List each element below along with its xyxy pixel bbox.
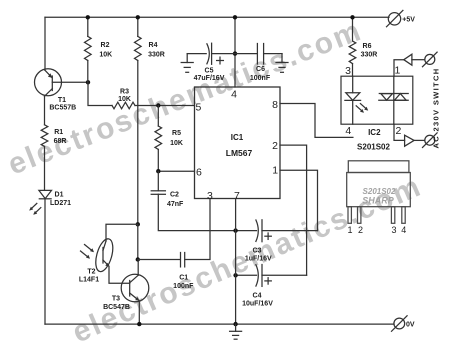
wire C3 row from ground column xyxy=(236,230,257,232)
svg-text:SHARP: SHARP xyxy=(362,196,395,206)
svg-text:5: 5 xyxy=(195,101,201,113)
label R1 68R xyxy=(54,129,67,145)
svg-text:L14F1: L14F1 xyxy=(79,276,99,283)
svg-text:2: 2 xyxy=(358,225,363,235)
wire C4 row from ground column xyxy=(236,274,257,276)
svg-text:3: 3 xyxy=(345,65,351,77)
opto triac inside IC2 xyxy=(379,76,408,124)
wire IC2 pin2 to AC terminal xyxy=(394,124,405,140)
capacitor C6 xyxy=(257,44,263,65)
svg-text:3: 3 xyxy=(207,190,213,202)
node pin6 / C2 top xyxy=(156,169,160,173)
wire R6 to IC2 pin3 xyxy=(352,64,354,77)
node pin4 top rail xyxy=(233,15,237,19)
svg-text:R3: R3 xyxy=(120,89,129,96)
svg-text:T3: T3 xyxy=(112,296,120,303)
transistor T3 xyxy=(121,274,149,302)
svg-text:C1: C1 xyxy=(179,275,188,282)
node T2 collector junction xyxy=(136,222,140,226)
svg-text:R4: R4 xyxy=(149,42,158,49)
wire arrow to bottom AC terminal xyxy=(414,139,425,141)
svg-text:330R: 330R xyxy=(148,51,165,58)
capacitor C5 xyxy=(207,43,224,64)
label R6 330R xyxy=(361,43,378,59)
wire C2 bottom to ground column xyxy=(158,194,235,230)
label C1 100nF xyxy=(173,275,194,290)
wire T1 base to R2 node xyxy=(52,81,88,83)
svg-text:T1: T1 xyxy=(58,97,66,104)
resistor R2 xyxy=(85,36,92,60)
node T3 emitter on rail xyxy=(137,322,141,326)
svg-text:3: 3 xyxy=(391,225,396,235)
svg-text:1: 1 xyxy=(394,65,400,77)
svg-text:100nF: 100nF xyxy=(173,283,194,290)
phototransistor T2 xyxy=(81,237,117,274)
terminal AC top xyxy=(423,52,438,67)
capacitor C1 xyxy=(181,253,185,267)
svg-text:IC1: IC1 xyxy=(231,133,244,142)
svg-text:C4: C4 xyxy=(253,292,262,299)
wire IC1 pin8 output to IC2 pin4 xyxy=(280,104,353,138)
node R4 top xyxy=(136,15,140,19)
svg-text:1: 1 xyxy=(347,225,352,235)
svg-text:S201S02: S201S02 xyxy=(357,143,390,152)
label R5 10K xyxy=(170,130,183,147)
label C2 47nF xyxy=(167,192,184,208)
wire junction to T2 collector xyxy=(106,224,138,241)
wire IC1 pin2 row xyxy=(280,145,307,275)
wire T1 emitter lead from rail xyxy=(44,17,46,70)
SHARP package drawing xyxy=(347,161,411,224)
wire decoupling row left xyxy=(187,53,206,55)
svg-text:C6: C6 xyxy=(256,66,265,73)
svg-text:10K: 10K xyxy=(118,96,131,103)
ground at 0V rail xyxy=(230,324,242,339)
wire T3 emitter to 0V rail xyxy=(138,301,140,324)
resistor R4 xyxy=(135,36,142,60)
label C5 47uF/16V xyxy=(194,67,225,81)
svg-text:10K: 10K xyxy=(99,51,112,58)
svg-text:IC2: IC2 xyxy=(368,128,381,137)
wire R4 top lead xyxy=(137,17,139,36)
svg-text:LD271: LD271 xyxy=(50,200,71,207)
svg-text:4: 4 xyxy=(345,125,351,137)
wire R2 top lead xyxy=(87,17,89,36)
terminal +5V xyxy=(387,10,403,26)
arrow AC out xyxy=(405,135,415,146)
wire IC1 pin4 supply column xyxy=(234,17,236,87)
arrow AC in xyxy=(404,54,412,65)
svg-text:AC 230V SWITCH: AC 230V SWITCH xyxy=(432,68,441,149)
node pin5 / R5 top xyxy=(156,103,160,107)
capacitor C2 xyxy=(151,191,165,195)
svg-text:C3: C3 xyxy=(253,248,262,255)
wire IC1 pin6 row xyxy=(158,170,194,172)
node T1 base / R2 bottom xyxy=(86,80,90,84)
wire D1 cathode down to 0V rail xyxy=(44,199,46,324)
wire arrow to top AC terminal xyxy=(412,59,425,61)
wire T2 emitter to T3 base xyxy=(109,267,130,284)
label C3 1uF/16V xyxy=(245,248,272,263)
svg-text:2: 2 xyxy=(395,125,401,137)
label C4 10uF/16V xyxy=(242,292,273,307)
svg-text:7: 7 xyxy=(234,190,240,202)
svg-text:C5: C5 xyxy=(205,67,214,74)
node C5 C6 junction xyxy=(233,51,237,55)
node R6 top rail xyxy=(350,15,354,19)
svg-text:D1: D1 xyxy=(55,192,64,199)
label T2 L14F1 xyxy=(79,269,99,284)
svg-text:BC557B: BC557B xyxy=(49,104,76,111)
LED D1 xyxy=(29,190,51,214)
ground left of C5 xyxy=(181,54,193,73)
resistor R6 xyxy=(349,41,356,64)
wire R3 to IC1 pin5 xyxy=(135,105,195,107)
ground right of C6 xyxy=(276,54,288,73)
svg-text:R2: R2 xyxy=(101,42,110,49)
wire T3 collector lead xyxy=(137,260,139,276)
resistor R5 xyxy=(155,106,162,172)
node ground column on rail xyxy=(233,322,237,326)
capacitor C3 xyxy=(256,220,271,242)
wire IC2 pin1 to AC terminal xyxy=(394,60,404,76)
svg-text:68R: 68R xyxy=(54,138,67,145)
transistor T1 xyxy=(35,69,62,96)
svg-text:+5V: +5V xyxy=(402,16,415,23)
node C4 ground column xyxy=(233,273,237,277)
IC1 LM567 body xyxy=(195,87,281,199)
node T3 collector / C1 xyxy=(136,257,140,261)
svg-text:1uF/16V: 1uF/16V xyxy=(245,256,272,263)
svg-text:330R: 330R xyxy=(361,52,378,59)
svg-text:1: 1 xyxy=(272,165,278,177)
wire R6 top lead xyxy=(352,17,354,41)
wire C1 to IC1 pin3 xyxy=(185,199,210,260)
label D1 LD271 xyxy=(50,192,71,208)
wire 0V bottom rail xyxy=(45,323,394,325)
svg-text:47nF: 47nF xyxy=(167,201,184,208)
label C6 100nF xyxy=(250,66,271,82)
wire C2 top lead xyxy=(157,171,159,191)
svg-text:100nF: 100nF xyxy=(250,75,271,82)
resistor R3 xyxy=(112,102,135,109)
wire C1 row from T3 collector node xyxy=(138,259,181,261)
wire T1 collector to R1 xyxy=(44,96,46,125)
wire R4 bottom down to T2 collector node xyxy=(137,61,139,225)
svg-text:T2: T2 xyxy=(87,269,95,276)
wire IC1 pin1 row xyxy=(280,170,318,230)
svg-text:R1: R1 xyxy=(54,129,63,136)
opto LED inside IC2 xyxy=(345,76,368,124)
wire IC1 pin7 ground column xyxy=(235,199,237,325)
wire junction down to C1 node xyxy=(137,224,139,259)
wire R1 to D1 xyxy=(44,146,46,190)
wire C6 to right ground xyxy=(264,53,282,55)
label IC2 S201S02 xyxy=(357,128,390,152)
IC2 S201S02 body xyxy=(341,76,413,124)
wire C4 to pin2 column xyxy=(262,274,307,276)
label R2 10K xyxy=(99,42,112,58)
svg-text:4: 4 xyxy=(231,89,237,101)
terminal AC bottom xyxy=(423,133,438,148)
svg-text:S201S02: S201S02 xyxy=(363,187,396,196)
svg-text:2: 2 xyxy=(272,140,278,152)
svg-text:R5: R5 xyxy=(172,130,181,137)
wire +5V top rail xyxy=(45,16,389,18)
capacitor C4 xyxy=(256,265,271,287)
resistor R1 xyxy=(41,125,48,147)
wire R2 bottom to base node xyxy=(87,61,89,83)
label R3 10K xyxy=(118,89,131,104)
label T1 BC557B xyxy=(49,97,76,111)
svg-text:R6: R6 xyxy=(363,43,372,50)
label IC1 LM567 xyxy=(226,133,253,158)
node R2 top xyxy=(86,15,90,19)
svg-text:0V: 0V xyxy=(406,322,415,329)
wire C5 to C6 row xyxy=(212,53,258,55)
svg-text:C2: C2 xyxy=(170,192,179,199)
svg-text:BC547B: BC547B xyxy=(103,304,130,311)
svg-text:4: 4 xyxy=(401,225,406,235)
svg-text:10uF/16V: 10uF/16V xyxy=(242,300,273,307)
svg-text:47uF/16V: 47uF/16V xyxy=(194,75,225,82)
svg-text:LM567: LM567 xyxy=(226,148,253,158)
label S201S02 SHARP on package xyxy=(362,187,396,206)
svg-text:8: 8 xyxy=(272,99,278,111)
svg-text:10K: 10K xyxy=(170,140,183,147)
label R4 330R xyxy=(148,42,165,58)
node C3 ground column xyxy=(233,228,237,232)
wire base node down to R3 xyxy=(88,82,112,105)
svg-text:6: 6 xyxy=(196,167,202,179)
wire C3 to pin1 column xyxy=(262,230,318,232)
terminal 0V xyxy=(392,316,408,332)
label T3 BC547B xyxy=(103,296,130,312)
